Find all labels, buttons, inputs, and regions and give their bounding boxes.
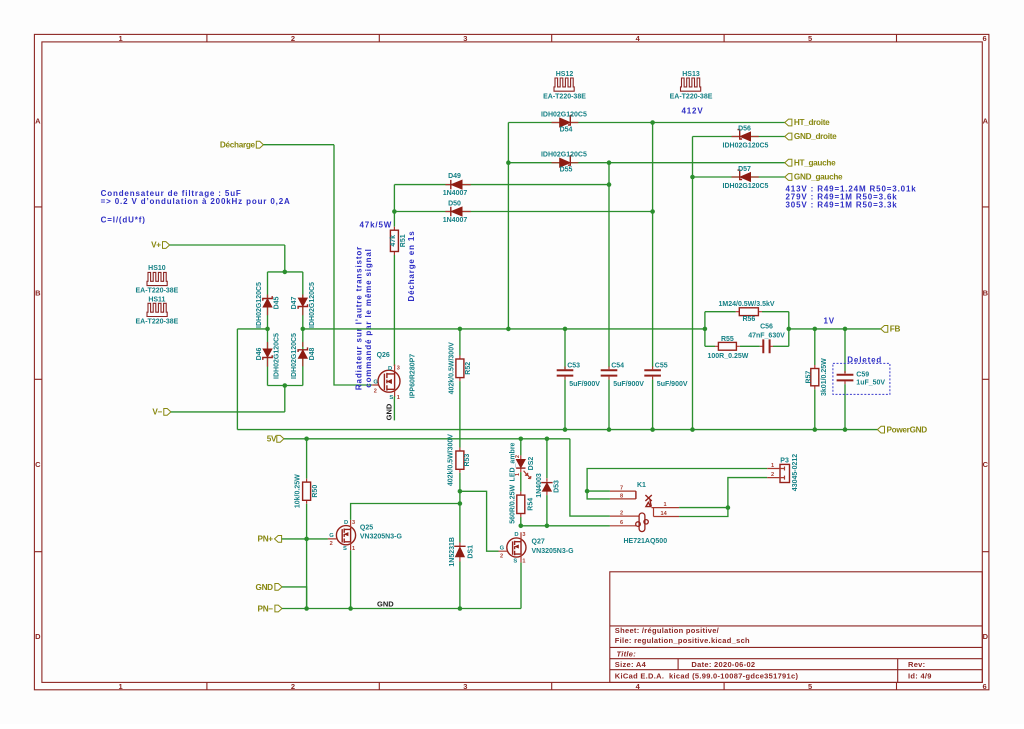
svg-text:S: S (513, 558, 517, 564)
svg-text:5uF/900V: 5uF/900V (657, 381, 688, 388)
resistor R50 (295, 439, 319, 609)
wire R51 bottom to Q26 drain (393, 255, 395, 366)
svg-text:1N4007: 1N4007 (443, 217, 468, 224)
svg-text:D49: D49 (448, 173, 461, 180)
node GND rail DS1 (458, 606, 463, 611)
svg-text:1: 1 (118, 682, 122, 691)
svg-text:EA-T220-38E: EA-T220-38E (136, 288, 179, 295)
svg-text:2: 2 (771, 472, 774, 478)
svg-text:43045-0212: 43045-0212 (792, 454, 799, 491)
wire GND_gauche row (693, 176, 785, 178)
svg-text:7: 7 (620, 485, 623, 491)
frame row labels left (35, 117, 41, 642)
svg-text:1uF_50V: 1uF_50V (856, 380, 885, 387)
svg-text:Décharge en 1s: Décharge en 1s (407, 230, 416, 301)
svg-text:D: D (35, 632, 41, 641)
hierarchical label HT_gauche (785, 159, 792, 166)
svg-text:D53: D53 (554, 480, 561, 493)
svg-text:2: 2 (330, 541, 333, 547)
node HV rail C53 (563, 327, 568, 332)
node PN+ / R50 column (304, 537, 309, 542)
svg-text:V−: V− (152, 408, 162, 417)
node divider gate tap (458, 489, 463, 494)
svg-text:A: A (35, 117, 41, 126)
wire K1 pin8 loop (587, 491, 610, 499)
node Q25 drain tap (458, 501, 463, 506)
svg-text:402k/0.5W/300V: 402k/0.5W/300V (448, 434, 455, 486)
resistor R51 (390, 227, 407, 255)
svg-text:14: 14 (661, 511, 668, 517)
diode D46 (IDH02G120C5) pointing down (256, 333, 281, 379)
node D50 row at R51 column (392, 209, 397, 214)
wire D55 row (HT_gauche net) (508, 162, 785, 164)
node PowerGND 692 column (690, 427, 695, 432)
svg-text:1V: 1V (824, 317, 836, 326)
power symbol GND at Q26 source (384, 396, 394, 420)
svg-text:402k/0.5W/300V: 402k/0.5W/300V (449, 342, 456, 394)
svg-text:HS12: HS12 (556, 71, 574, 78)
svg-text:GND_gauche: GND_gauche (794, 173, 843, 182)
svg-text:412V: 412V (681, 107, 703, 116)
svg-text:3: 3 (352, 520, 355, 526)
K1 switch bar 7-8 (635, 491, 637, 499)
node C59 top (843, 327, 848, 332)
svg-text:R55: R55 (721, 336, 734, 343)
svg-text:C55: C55 (655, 363, 668, 370)
svg-text:6: 6 (983, 34, 987, 43)
node D53 / pin6 row (545, 524, 550, 529)
svg-text:D56: D56 (738, 125, 751, 132)
wire DS1 to GND rail (459, 562, 461, 609)
node C55 column at D50 row (650, 209, 655, 214)
wire D50 row (394, 211, 652, 213)
node K1 pin7/8 junction (585, 489, 590, 494)
svg-text:3: 3 (522, 532, 525, 538)
svg-text:GND_droite: GND_droite (794, 132, 837, 141)
wire bridge top rail (268, 271, 303, 273)
svg-text:S: S (343, 546, 347, 552)
svg-text:2: 2 (620, 510, 623, 516)
svg-text:1: 1 (397, 395, 400, 401)
LED DS2 (LED_ambre) pointing down (515, 439, 535, 479)
diode D48 (IDH02G120C5) pointing up (291, 333, 316, 379)
wire V+ horizontal (170, 244, 285, 246)
svg-text:5uF/900V: 5uF/900V (569, 381, 600, 388)
svg-text:2: 2 (500, 553, 503, 559)
svg-text:LED_ambre: LED_ambre (510, 442, 517, 481)
svg-text:GND: GND (384, 403, 393, 420)
svg-text:D: D (388, 366, 392, 372)
node HV rail divider left (703, 327, 708, 332)
wire drop from mid-left to PowerGND rail (236, 329, 238, 430)
svg-text:Q26: Q26 (377, 352, 390, 359)
svg-text:IDH02G120C5: IDH02G120C5 (291, 333, 298, 379)
svg-text:IDH02G120C5: IDH02G120C5 (256, 282, 263, 328)
svg-text:3: 3 (397, 365, 400, 371)
capacitor C55 (644, 363, 688, 430)
svg-text:G: G (500, 545, 505, 551)
svg-text:1N5231B: 1N5231B (449, 537, 456, 567)
svg-text:Deleted: Deleted (847, 356, 882, 365)
hierarchical label HT_droite (785, 119, 792, 126)
connector P3 (43045-0212) (767, 454, 799, 491)
svg-text:Décharge: Décharge (220, 140, 256, 149)
svg-text:PN−: PN− (258, 605, 274, 614)
capacitor C54 (601, 363, 645, 430)
node bridge bottom (V- junction) (283, 383, 288, 388)
wire R52 bottom to R53 top (crosses rails) (459, 381, 461, 447)
K1 pin 6 stub (610, 525, 637, 527)
svg-text:5V: 5V (267, 435, 277, 444)
hierarchical label PowerGND (877, 426, 884, 433)
diode D55 (IDH02G120C5) pointing right (541, 152, 587, 174)
Deleted marker box (833, 363, 890, 394)
svg-text:C56: C56 (760, 323, 773, 330)
diode D53 (1N4003) pointing up (536, 439, 560, 498)
svg-text:1N4007: 1N4007 (443, 190, 468, 197)
hierarchical label FB (881, 326, 888, 333)
svg-text:DS1: DS1 (468, 545, 475, 559)
wire Decharge vertical to Q26 gate (334, 145, 372, 385)
title block row lines (610, 626, 983, 670)
K1 pin 8 stub (610, 498, 636, 500)
svg-text:GND: GND (256, 583, 274, 592)
node 5V R50 (304, 437, 309, 442)
svg-text:FB: FB (890, 325, 901, 334)
title block box (610, 572, 983, 683)
svg-text:5: 5 (808, 34, 812, 43)
K1 pin 1 stub (652, 507, 680, 509)
svg-text:HT_droite: HT_droite (794, 118, 830, 127)
svg-text:1: 1 (664, 502, 667, 508)
svg-text:PN+: PN+ (258, 535, 274, 544)
node GND rail R50 column (304, 606, 309, 611)
svg-text:C53: C53 (567, 363, 580, 370)
svg-text:R50: R50 (312, 485, 319, 498)
node 5V DS2 (519, 437, 524, 442)
svg-text:V+: V+ (151, 241, 161, 250)
wire C55 column (from D54 row down to C55) (652, 123, 654, 368)
hierarchical label GND_gauche (785, 174, 792, 181)
wire C54 column (from D55 row down to C54) (608, 163, 610, 368)
svg-text:R52: R52 (465, 362, 472, 375)
wire bridge mid-left extension (237, 328, 267, 330)
svg-text:1: 1 (522, 558, 525, 564)
diode D50 (1N4007) pointing left (443, 201, 471, 224)
svg-text:D47: D47 (291, 296, 298, 309)
node 508/D55 row (506, 160, 511, 165)
svg-text:C=I/(dU*f): C=I/(dU*f) (101, 215, 146, 224)
node R54 / pin6 row (519, 524, 524, 529)
resistor R54 (510, 472, 535, 524)
wire D54 row (HT_droite net) (508, 122, 785, 124)
wire pin6 row (521, 525, 610, 527)
node PowerGND C55 (650, 427, 655, 432)
svg-text:File: regulation_positive.kica: File: regulation_positive.kicad_sch (615, 636, 750, 645)
title block column separators (678, 659, 898, 683)
svg-text:IDH02G120C5: IDH02G120C5 (274, 333, 281, 379)
wire V+ drop to bridge top (284, 245, 286, 272)
resistor R53 (448, 434, 472, 486)
svg-text:3: 3 (463, 34, 467, 43)
wire 5V drop to relay pin 2 (570, 439, 610, 516)
svg-text:PowerGND: PowerGND (887, 425, 928, 434)
wire R54 bottom to relay pin6 row (520, 517, 522, 526)
svg-text:D57: D57 (738, 166, 751, 173)
wire bridge left branch (267, 272, 269, 329)
svg-text:EA-T220-38E: EA-T220-38E (136, 319, 179, 326)
relay K1 HE721A0500 (610, 482, 679, 545)
svg-text:HS10: HS10 (148, 265, 166, 272)
svg-text:1: 1 (118, 34, 122, 43)
wire gate tap to Q27 gate (460, 491, 499, 551)
wire D53 bottom to pin6 row (546, 495, 548, 526)
svg-text:VN3205N3-G: VN3205N3-G (532, 548, 575, 555)
node PowerGND C54 (607, 427, 612, 432)
svg-text:3k01/0.25W: 3k01/0.25W (821, 358, 828, 396)
svg-text:560R/0.25W: 560R/0.25W (510, 484, 517, 523)
svg-text:HT_gauche: HT_gauche (794, 158, 836, 167)
svg-text:Date: 2020-06-02: Date: 2020-06-02 (691, 660, 755, 669)
node HV rail R52 (458, 327, 463, 332)
svg-text:6: 6 (620, 520, 623, 526)
svg-text:D55: D55 (560, 167, 573, 174)
wire divider box bottom branch (705, 345, 715, 347)
capacitor C56 (748, 323, 785, 353)
frame row ticks left (34, 207, 42, 552)
node C54 column at D49 row (607, 182, 612, 187)
svg-text:305V : R49=1M R50=3.3k: 305V : R49=1M R50=3.3k (786, 201, 898, 210)
K1 pin 2 stub (610, 515, 639, 517)
svg-text:D54: D54 (560, 126, 573, 133)
node bridge mid-right (301, 327, 306, 332)
node PowerGND C53 (563, 427, 568, 432)
svg-text:Q25: Q25 (360, 524, 373, 531)
diode D49 (1N4007) pointing left (443, 173, 471, 197)
frame row ticks right (982, 207, 989, 552)
node R57 top (813, 327, 818, 332)
resistor R55 (708, 336, 749, 360)
wire K1 common net to P3 pin1 (587, 469, 767, 492)
svg-text:EA-T220-38E: EA-T220-38E (670, 94, 713, 101)
svg-text:G: G (373, 380, 378, 386)
resistor R52 (449, 329, 473, 394)
capacitor C53 (557, 329, 601, 430)
svg-text:Sheet: /régulation positive/: Sheet: /régulation positive/ (615, 626, 720, 635)
wire divider box top branch (705, 311, 736, 313)
svg-text:GND: GND (377, 600, 394, 609)
wire GND_droite row (693, 136, 785, 138)
node C54 column at D55 row (607, 160, 612, 165)
wire Q27 source to GND rail corner (520, 563, 522, 609)
diode D45 (IDH02G120C5) pointing up (256, 282, 281, 328)
svg-text:P3: P3 (780, 458, 789, 465)
zener DS1 (1N5231B) pointing up (449, 537, 475, 567)
svg-text:IDH02G120C5: IDH02G120C5 (309, 282, 316, 328)
svg-text:D50: D50 (448, 201, 461, 208)
svg-text:5uF/900V: 5uF/900V (613, 381, 644, 388)
svg-text:EA-T220-38E: EA-T220-38E (543, 94, 586, 101)
svg-text:B: B (35, 289, 41, 298)
svg-text:8: 8 (620, 493, 623, 499)
wire R53 bottom to divider node (459, 473, 461, 492)
svg-text:6: 6 (983, 682, 987, 691)
svg-text:4: 4 (636, 682, 641, 691)
wire GND label to PN- rail (282, 587, 307, 609)
P3 pin 2 (767, 476, 784, 480)
wire divider node down to DS1 (459, 491, 461, 542)
svg-text:D: D (514, 532, 518, 538)
node PowerGND R57 (813, 427, 818, 432)
node GND rail Q25 source (348, 606, 353, 611)
svg-text:VN3205N3-G: VN3205N3-G (360, 534, 403, 541)
wire vertical 508 column (507, 123, 509, 329)
node C55 column at D54 row (650, 120, 655, 125)
node 692 column at GND_gauche row (690, 175, 695, 180)
node bridge mid-left (265, 327, 270, 332)
wire GND rail bottom (282, 608, 521, 610)
svg-text:IPP60R280P7: IPP60R280P7 (409, 354, 416, 398)
transistor Q26 (IPP60R280P7) (372, 352, 416, 401)
diode D56 (IDH02G120C5) pointing left (723, 125, 769, 149)
svg-text:D48: D48 (309, 347, 316, 360)
wire K1 pin14 to riser (679, 478, 767, 517)
diode D57 (IDH02G120C5) pointing left (723, 166, 769, 190)
svg-text:Radiateur sur l’autre transist: Radiateur sur l’autre transistor (354, 246, 363, 390)
svg-text:Q27: Q27 (532, 539, 545, 546)
svg-text:4: 4 (636, 34, 641, 43)
K1 coil (636, 513, 649, 532)
node 5V D53 (545, 437, 550, 442)
wire bridge bottom rail (268, 385, 303, 387)
svg-text:G: G (329, 533, 334, 539)
svg-text:IDH02G120C5: IDH02G120C5 (541, 152, 587, 159)
node bridge top (V+ junction) (283, 270, 288, 275)
svg-text:C54: C54 (611, 363, 624, 370)
svg-text:R57: R57 (805, 371, 812, 384)
svg-text:R56: R56 (742, 316, 755, 323)
wire R51 column from D49 row down (393, 185, 395, 227)
wire K1 pin1 to riser (679, 507, 728, 509)
capacitor C59 (deleted) (837, 329, 886, 430)
svg-text:S: S (389, 395, 393, 401)
wire HV rail right segment to FB (789, 328, 881, 330)
svg-text:Rev:: Rev: (908, 660, 925, 669)
svg-text:B: B (983, 289, 989, 298)
svg-text:47k: 47k (390, 235, 397, 247)
wire 692 column down to PowerGND rail (692, 137, 694, 430)
frame column labels bottom (118, 682, 987, 691)
diode D54 (IDH02G120C5) pointing right (541, 112, 587, 134)
K1 pin 14 stub (654, 508, 680, 517)
svg-text:HS11: HS11 (148, 296, 165, 303)
frame row labels right (983, 117, 989, 642)
transistor Q25 (VN3205N3-G) (328, 520, 403, 552)
wire V- riser to bridge bottom (284, 386, 286, 412)
svg-text:commandé par le même signal: commandé par le même signal (364, 248, 373, 387)
svg-text:5: 5 (808, 682, 812, 691)
wire 5V rail (284, 438, 570, 440)
svg-text:IDH02G120C5: IDH02G120C5 (723, 142, 769, 149)
wire PowerGND rail (237, 429, 877, 431)
wire divider box left vertical (704, 312, 706, 347)
wire D49 row (394, 184, 609, 186)
svg-text:D: D (344, 520, 348, 526)
node 508/HV rail (506, 327, 511, 332)
svg-text:C: C (35, 460, 41, 469)
K1 pin 7 stub (610, 490, 636, 492)
wire PN+ to Q25 gate (282, 538, 328, 540)
svg-text:D: D (983, 632, 989, 641)
wire Q25 drain riser (351, 504, 460, 520)
svg-text:Size: A4: Size: A4 (615, 660, 647, 669)
resistor R56 (719, 301, 775, 323)
hierarchical label GND_droite (785, 133, 792, 140)
svg-text:=> 0.2 V d’ondulation à 200kHz: => 0.2 V d’ondulation à 200kHz pour 0,2A (101, 197, 291, 206)
wire K1 pin7 (587, 490, 610, 492)
svg-text:1: 1 (352, 546, 355, 552)
wire Decharge horizontal (263, 144, 334, 146)
wire HV rail (bridge mid to divider) (303, 328, 705, 330)
svg-text:K1: K1 (637, 482, 646, 489)
svg-text:Id: 4/9: Id: 4/9 (908, 672, 932, 681)
node PowerGND C59 (843, 427, 848, 432)
svg-text:2: 2 (291, 34, 295, 43)
frame column labels top (118, 34, 987, 43)
svg-text:IDH02G120C5: IDH02G120C5 (541, 112, 587, 119)
wire V- horizontal (171, 411, 285, 413)
svg-text:HS13: HS13 (682, 71, 700, 78)
svg-text:10k/0.25W: 10k/0.25W (295, 474, 302, 508)
transistor Q27 (VN3205N3-G) (499, 532, 575, 564)
svg-text:1M24/0.5W/3.5kV: 1M24/0.5W/3.5kV (719, 301, 775, 308)
svg-text:R53: R53 (464, 454, 471, 467)
svg-text:Title:: Title: (617, 650, 637, 659)
P3 pin 1 (767, 467, 784, 471)
svg-text:DS2: DS2 (528, 457, 535, 471)
svg-text:D46: D46 (256, 347, 263, 360)
wire divider box right vertical (788, 312, 790, 347)
svg-text:KiCad E.D.A. kicad (5.99.0-10: KiCad E.D.A. kicad (5.99.0-10087-gdce351… (615, 672, 799, 681)
svg-text:47nF_630V: 47nF_630V (748, 332, 785, 339)
frame column ticks top (207, 34, 897, 42)
svg-text:1: 1 (771, 463, 774, 469)
wire Q25 source to GND rail (350, 550, 352, 608)
svg-text:47k/5W: 47k/5W (360, 220, 393, 229)
svg-text:2: 2 (374, 388, 377, 394)
node HV rail divider right (787, 327, 792, 332)
svg-text:100R_0.25W: 100R_0.25W (708, 353, 749, 360)
K1 switch contact (645, 495, 651, 506)
svg-text:C59: C59 (856, 372, 869, 379)
svg-text:A: A (983, 117, 989, 126)
svg-text:2: 2 (291, 682, 295, 691)
node pin1/pin14 riser (726, 505, 731, 510)
svg-text:1N4003: 1N4003 (536, 473, 543, 498)
svg-text:D45: D45 (274, 296, 281, 309)
svg-text:HE721AQ500: HE721AQ500 (624, 538, 668, 545)
diode D47 (IDH02G120C5) pointing down (291, 282, 316, 328)
svg-text:C: C (983, 460, 989, 469)
svg-text:3: 3 (463, 682, 467, 691)
wire bridge right branch (302, 272, 304, 329)
svg-text:IDH02G120C5: IDH02G120C5 (723, 183, 769, 190)
resistor R57 (805, 329, 828, 430)
svg-text:R54: R54 (528, 498, 535, 511)
frame column ticks bottom (207, 682, 897, 689)
